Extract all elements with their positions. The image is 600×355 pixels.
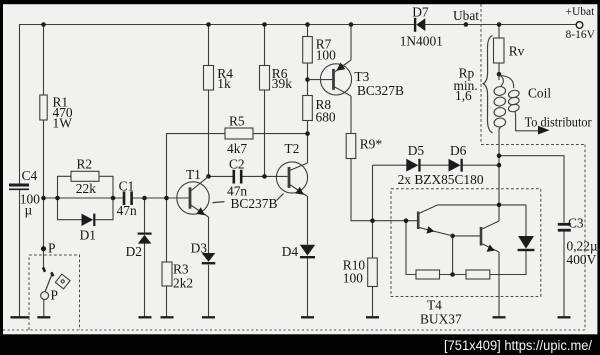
coil secondary winding: [501, 76, 520, 118]
transistor T3: [308, 60, 352, 96]
wire D5 branch riser: [372, 165, 374, 221]
capacitor C3: [558, 224, 571, 230]
node Rv top: [497, 22, 502, 27]
svg-text:D3: D3: [191, 241, 208, 256]
resistor R1: [40, 95, 47, 120]
svg-text:R5: R5: [229, 114, 245, 129]
wire T3 emitter to rail: [350, 25, 352, 61]
svg-text:39k: 39k: [272, 76, 292, 91]
wire R6 column: [264, 25, 266, 66]
pointer line BC237B: [213, 202, 225, 203]
svg-text:47n: 47n: [227, 183, 247, 198]
resistor R4: [204, 66, 214, 91]
wire top supply rail right segment: [425, 24, 576, 26]
node bus R1: [41, 196, 46, 201]
node P: [41, 246, 46, 251]
svg-text:T3: T3: [354, 69, 369, 84]
capacitor C4: [9, 185, 29, 189]
wire T4 diode bottom leg: [490, 251, 526, 275]
ground T4 emitter: [493, 316, 506, 318]
resistor R10: [368, 258, 378, 287]
node R4 top: [206, 22, 211, 27]
wire R9 down and right to T4 base node: [351, 159, 417, 221]
wire T4 diode top leg: [525, 205, 527, 236]
svg-text:1k: 1k: [217, 76, 231, 91]
diode D2: [138, 233, 152, 244]
svg-text:µ: µ: [25, 203, 33, 218]
wire between D5 and D6: [421, 164, 449, 166]
svg-text:D2: D2: [126, 244, 142, 259]
wire T3 collector to R9: [350, 96, 352, 134]
Rp brace: [483, 36, 492, 133]
node R1 top: [41, 22, 46, 27]
svg-text:[751x409] https://upic.me/: [751x409] https://upic.me/: [444, 338, 592, 353]
wire points bus: [44, 197, 123, 199]
svg-text:T4: T4: [427, 298, 442, 313]
capacitor C1: [124, 191, 132, 205]
resistor T4 internal right: [466, 270, 490, 279]
svg-text:T2: T2: [284, 141, 299, 156]
svg-text:400V: 400V: [567, 252, 597, 267]
svg-text:P: P: [48, 240, 55, 255]
wire zener string left: [373, 164, 407, 166]
node T4 mid emitter: [450, 234, 455, 239]
wire coil primary bottom to collector node: [498, 129, 500, 206]
dashed box P switch: [29, 255, 80, 330]
wire T4 Q2 base link: [453, 235, 480, 237]
wire bus C1 to T1 base: [133, 197, 189, 199]
node loop right: [111, 196, 116, 201]
diode D4: [300, 245, 315, 259]
ground C4: [11, 316, 30, 318]
ground D2: [139, 316, 152, 318]
svg-text:R2: R2: [77, 157, 93, 172]
wire R3 column: [166, 198, 168, 262]
node T2 base: [262, 174, 267, 179]
node T1 collector: [206, 174, 211, 179]
transistor T1: [177, 176, 209, 217]
coil primary winding: [493, 75, 506, 131]
cam symbol: [55, 274, 70, 289]
wire collector node into T4: [498, 205, 500, 221]
resistor R6: [260, 66, 270, 91]
svg-text:P: P: [51, 288, 58, 303]
svg-text:Rv: Rv: [509, 44, 525, 59]
svg-text:22k: 22k: [76, 181, 96, 196]
node coil top: [497, 72, 502, 77]
diode D1: [82, 214, 96, 226]
svg-text:2x BZX85C180: 2x BZX85C180: [398, 172, 484, 187]
wire C3 top branch: [499, 156, 564, 223]
wire T4 emitter column: [498, 252, 500, 317]
resistor T4 internal left: [416, 270, 440, 279]
wire Rv column top: [498, 25, 500, 39]
svg-text:Ubat: Ubat: [453, 8, 479, 23]
wire C2 left: [209, 175, 234, 177]
svg-text:R3: R3: [173, 262, 189, 277]
svg-text:1W: 1W: [53, 116, 73, 131]
pointer line BC237B to T2: [277, 194, 284, 201]
ground C3: [558, 316, 571, 318]
svg-text:+Ubat: +Ubat: [566, 6, 596, 18]
svg-text:D5: D5: [408, 143, 425, 158]
svg-text:C3: C3: [568, 216, 584, 231]
wire D3 column: [208, 217, 210, 253]
wire R5 left leg: [167, 134, 226, 198]
node R3 tap: [164, 196, 169, 201]
wire switch to ground: [43, 300, 45, 318]
diode D7: [414, 18, 425, 32]
svg-text:D7: D7: [412, 5, 429, 20]
diode D6: [449, 159, 463, 172]
resistor R3: [162, 262, 172, 286]
wire T4 resistors bottom link: [440, 274, 467, 276]
svg-text:100: 100: [316, 48, 336, 63]
node zener tap: [497, 163, 502, 168]
svg-text:D4: D4: [282, 244, 299, 259]
svg-text:To distributor: To distributor: [525, 115, 592, 130]
switch P contact: [43, 267, 45, 272]
wire R7 column: [307, 25, 309, 37]
ground P: [37, 316, 50, 318]
svg-text:BUX37: BUX37: [420, 312, 462, 327]
wire P column: [43, 198, 45, 269]
node loop left: [55, 196, 60, 201]
svg-text:8-16V: 8-16V: [566, 29, 596, 41]
diode T4 internal: [518, 236, 535, 251]
svg-text:T1: T1: [186, 167, 201, 182]
wire T4 mid resistor node: [452, 236, 454, 275]
wire R10 column: [372, 221, 374, 258]
wire R5 right leg: [253, 133, 308, 135]
svg-text:D1: D1: [80, 228, 96, 243]
svg-text:R9*: R9*: [360, 137, 383, 152]
node R6 top: [262, 22, 267, 27]
wire R1 column top: [43, 25, 45, 96]
svg-text:C2: C2: [229, 157, 245, 172]
svg-text:680: 680: [316, 110, 336, 125]
distributor arrow: [538, 126, 550, 135]
ground R10: [366, 316, 379, 318]
transistor T4 Q2: [481, 221, 499, 252]
svg-text:C1: C1: [119, 178, 135, 193]
node D5 branch: [370, 218, 375, 223]
svg-text:1,6: 1,6: [455, 88, 472, 103]
node T4 mid bottom: [450, 272, 455, 277]
diode D5: [406, 159, 420, 172]
wire secondary bottom to distributor: [516, 117, 538, 131]
battery terminal +Ubat: [576, 22, 583, 29]
svg-text:2k2: 2k2: [173, 276, 193, 291]
node D2 tap: [142, 196, 147, 201]
svg-text:Coil: Coil: [528, 86, 551, 101]
ground D3: [202, 316, 215, 318]
wire C2 right to T2 base: [242, 175, 288, 177]
wire top supply rail left segment: [20, 25, 415, 185]
wire R4 column: [208, 25, 210, 66]
resistor R5: [225, 128, 253, 139]
node R5 right: [305, 131, 310, 136]
switch P blade: [45, 274, 52, 293]
wire T4 internal top rail: [438, 204, 526, 206]
svg-text:BC327B: BC327B: [357, 83, 404, 98]
capacitor C2: [234, 170, 241, 184]
node T4 base resistor: [404, 218, 409, 223]
node C3 tap: [497, 153, 502, 158]
ground R3: [161, 316, 174, 318]
svg-text:100: 100: [343, 271, 363, 286]
svg-text:4k7: 4k7: [227, 141, 247, 156]
svg-text:47n: 47n: [117, 203, 137, 218]
node R7 top: [305, 22, 310, 27]
wire T2 emitter to D4: [307, 197, 309, 245]
switch P pivot: [41, 292, 49, 300]
node T3 base: [305, 77, 310, 82]
wire T4 base resistor leg: [406, 221, 416, 275]
diode D3: [202, 253, 216, 264]
wire Rv to coil node: [498, 63, 500, 80]
wire D4 to ground: [307, 258, 309, 317]
node T4 top rail: [497, 203, 502, 208]
wire R8 to T2 collector: [307, 121, 309, 164]
wire R2-D1 loop rectangle: [58, 176, 72, 198]
resistor R8: [303, 96, 313, 121]
wire T4 base inside: [416, 220, 419, 222]
wire R1 column bottom: [43, 120, 45, 198]
ground D4: [301, 316, 314, 318]
dashed box T4: [391, 189, 541, 297]
node T3 emitter top: [349, 22, 354, 27]
svg-text:D6: D6: [450, 143, 467, 158]
resistor R2: [71, 171, 99, 181]
svg-text:1N4001: 1N4001: [400, 33, 443, 48]
wire C4 column lower: [19, 190, 21, 318]
wire D2 column: [144, 198, 146, 233]
svg-text:C4: C4: [22, 168, 38, 183]
wire C3 bottom: [563, 232, 565, 318]
node Ubat: [464, 22, 469, 27]
resistor R9: [346, 134, 356, 159]
resistor R7: [303, 37, 313, 64]
transistor T2: [276, 162, 307, 197]
resistor Rv: [494, 38, 505, 63]
wire zener string right: [463, 164, 500, 166]
transistor T4 Q1: [418, 205, 452, 236]
